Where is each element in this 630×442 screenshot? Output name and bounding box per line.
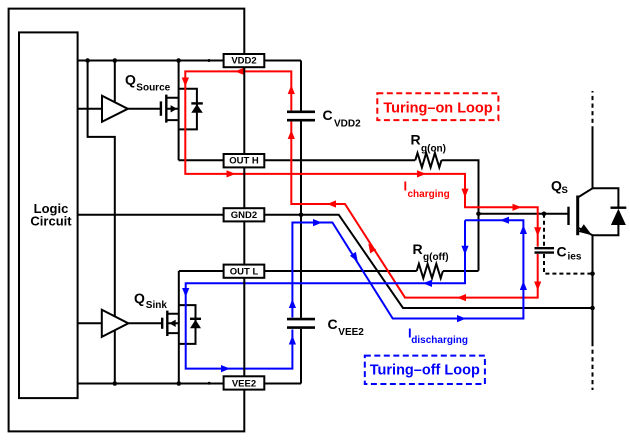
svg-text:Turing–off Loop: Turing–off Loop (370, 363, 480, 379)
svg-text:Q: Q (134, 290, 145, 306)
wire: buffer supply jog from VDD2 rail down to VEE2 rail (88, 61, 115, 384)
node: VDD2 rail junction dots (85, 58, 210, 63)
wire: pin column between boxes (243, 67, 245, 376)
label box: Turing-off Loop (blue dashed) (365, 356, 485, 384)
wire: OUT H rail (179, 159, 416, 161)
svg-text:S: S (562, 185, 568, 196)
svg-text:Turing–on Loop: Turing–on Loop (383, 100, 492, 116)
transistor Q_S IGBT (569, 188, 593, 235)
svg-text:ies: ies (568, 252, 582, 263)
label Q_Sink (134, 290, 167, 311)
wire: C_VDD2 branch (300, 61, 302, 215)
pin OUT H (224, 154, 265, 167)
capacitor C_VDD2 plates (287, 112, 315, 120)
label I_discharging (blue) (408, 326, 468, 347)
label R_g(off) (413, 241, 449, 263)
red loop: I_charging path (185, 71, 537, 297)
svg-text:Q: Q (551, 178, 562, 194)
pin VEE2 (224, 376, 265, 389)
label C_VEE2 (328, 316, 365, 338)
wire: OUT L rail (179, 270, 417, 272)
svg-text:Q: Q (125, 72, 136, 88)
label R_g(on) (411, 132, 447, 155)
node: emitter junction dots (590, 271, 595, 310)
logic circuit block (19, 32, 78, 398)
node: GND2/cap junction dot (299, 212, 304, 217)
svg-text:VEE2: VEE2 (338, 327, 364, 338)
svg-text:charging: charging (408, 189, 450, 200)
wire: U2 output to Q_Sink gate (128, 322, 162, 324)
red arrows on charging loop (182, 68, 542, 301)
resistor R_g(off) (417, 264, 443, 278)
wire: Q_S collector vertical with dashed pigtail (592, 91, 594, 188)
wire: logic output to source buffer (78, 108, 102, 110)
resistor R_g(on) (415, 153, 441, 167)
svg-text:g(on): g(on) (421, 144, 446, 155)
svg-text:VDD2: VDD2 (231, 56, 256, 67)
capacitor C_ies (dashed parasitic) (535, 214, 593, 274)
svg-text:discharging: discharging (411, 335, 468, 346)
pin OUT L (224, 265, 265, 278)
label box: Turing-on Loop (red dashed) (377, 93, 498, 120)
label Q_S (551, 178, 568, 197)
wire: source buffer power stub (114, 61, 116, 103)
wire: VDD2 rail (78, 60, 301, 62)
svg-text:C: C (557, 244, 567, 260)
svg-text:OUT L: OUT L (230, 266, 259, 277)
wire: C_VEE2 branch (300, 215, 302, 384)
label Q_Source (125, 72, 171, 94)
transistor Q_Sink MOSFET (162, 271, 179, 384)
svg-text:OUT H: OUT H (229, 156, 259, 167)
node: VEE2 rail junction dots (113, 381, 211, 386)
transistor Q_Source MOSFET (161, 61, 179, 161)
wire: R_g(off) to gate node vertical (443, 270, 479, 272)
wire: gate line to Q_S (479, 213, 569, 215)
op-amp buffer U2 (sink driver) (102, 310, 129, 337)
svg-text:Circuit: Circuit (30, 214, 72, 229)
label I_charging (red) (404, 179, 450, 201)
diode: Q_Sink body diode (179, 305, 201, 344)
diode: freewheel diode across Q_S (593, 188, 627, 235)
wire: outer supply loop (top/left/bottom) (9, 9, 245, 432)
wire: GND2 rail with diagonal to emitter (78, 215, 593, 308)
diode: Q_Source body diode (179, 89, 203, 130)
op-amp buffer U1 (source driver) (102, 96, 128, 122)
svg-text:C: C (328, 316, 338, 332)
node: gate net junction dots (476, 212, 546, 217)
pin GND2 (224, 208, 265, 221)
svg-text:Source: Source (136, 82, 170, 93)
svg-text:C: C (323, 107, 333, 123)
blue arrows on discharging loop (182, 217, 527, 373)
svg-text:g(off): g(off) (423, 252, 449, 263)
label C_ies (557, 244, 582, 263)
svg-text:VEE2: VEE2 (232, 378, 256, 389)
wire: U1 output to Q_Source gate (128, 108, 161, 110)
capacitor C_VEE2 plates (287, 319, 315, 328)
svg-text:Sink: Sink (146, 300, 168, 311)
blue loop: I_discharging path (186, 220, 524, 368)
svg-text:GND2: GND2 (231, 210, 257, 221)
wire: logic output to sink buffer (78, 322, 102, 324)
svg-text:VDD2: VDD2 (334, 118, 361, 129)
wire: VEE2 rail (78, 383, 301, 385)
wire: Q_S emitter vertical with dashed pigtail (592, 235, 594, 390)
wire: R_g(on) to gate node (442, 160, 479, 271)
pin VDD2 (224, 54, 265, 67)
svg-text:R: R (413, 241, 423, 257)
svg-text:R: R (411, 132, 421, 148)
label C_VDD2 (323, 107, 362, 129)
